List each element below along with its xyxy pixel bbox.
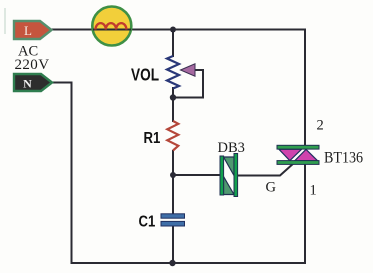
svg-text:R1: R1 [144, 130, 161, 147]
triac top bar (terminal 2) [277, 145, 319, 149]
terminal N [14, 74, 52, 91]
resistor R1 zigzag [167, 121, 178, 151]
capacitor C1 plates [161, 214, 185, 226]
svg-text:VOL: VOL [131, 66, 159, 85]
triac bottom bar (terminal 1 / gate side) [277, 161, 319, 165]
wire: lamp to top-right corner [131, 29, 305, 31]
node B: wiper junction dot [170, 94, 176, 100]
potentiometer wiper arrow [181, 64, 196, 76]
wire: L terminal to lamp [50, 29, 93, 31]
triac triangle right (points up) [295, 149, 318, 160]
wire: mid junction down to R1 [172, 98, 174, 123]
wire: potentiometer wiper loop [173, 70, 203, 98]
wire: diac to triac gate (G) [238, 163, 295, 176]
wire: top junction down to VOL [172, 30, 174, 58]
node A: top junction dot [170, 27, 176, 33]
wire: R1 bottom to lower junction [172, 150, 174, 176]
diac left bar [220, 156, 224, 195]
faint edge artifact line [4, 8, 6, 34]
svg-text:220V: 220V [15, 57, 50, 73]
svg-text:L: L [24, 23, 32, 38]
svg-text:1: 1 [310, 183, 317, 199]
wire: N terminal right then down left vertical [51, 83, 72, 265]
lamp [92, 7, 131, 46]
svg-text:DB3: DB3 [218, 140, 245, 156]
svg-text:N: N [23, 77, 32, 91]
terminal L [14, 21, 52, 39]
wire: right vertical upper (triac terminal 2 side) [304, 29, 306, 147]
wire: bottom horizontal [71, 262, 307, 264]
triac BT136 [277, 145, 319, 164]
triac triangle left (points down) [279, 149, 302, 160]
svg-text:G: G [266, 180, 277, 196]
svg-text:2: 2 [317, 118, 324, 134]
node D: bottom junction dot [169, 260, 175, 266]
wire: right vertical lower (triac terminal 1 side) [304, 164, 306, 264]
diac DB3 [220, 154, 238, 197]
diac triangle upper [224, 157, 235, 176]
svg-text:BT136: BT136 [324, 150, 364, 167]
svg-text:C1: C1 [139, 213, 156, 230]
node C: R1/diac/C1 junction dot [170, 172, 176, 178]
wire: lower junction right to diac and gate diagonal to triac [173, 174, 221, 176]
wire: lower junction down to C1 [172, 175, 174, 215]
diac triangle lower [224, 177, 235, 195]
potentiometer VOL zigzag [167, 56, 179, 89]
wire: VOL bottom to mid junction [172, 87, 174, 98]
diac right bar [234, 154, 238, 197]
wire: C1 bottom to bottom wire [172, 225, 174, 263]
